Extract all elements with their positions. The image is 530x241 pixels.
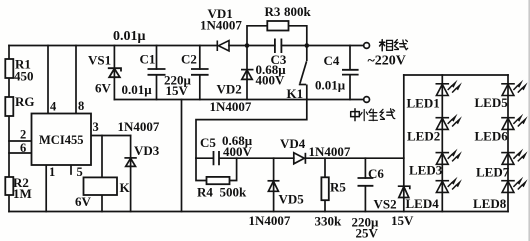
svg-text:C1: C1 [140,52,156,67]
wire pin8 drop [75,46,77,114]
LED3 [436,149,462,165]
svg-text:0.01μ: 0.01μ [122,82,153,97]
svg-text:6V: 6V [75,194,92,209]
resistor R5 [321,177,328,200]
svg-text:6V: 6V [95,81,112,96]
svg-text:1M: 1M [13,186,32,201]
svg-text:LED6: LED6 [475,128,509,143]
wire relay coil drop [101,136,103,212]
svg-text:2: 2 [20,128,26,142]
wire VS1 branch [113,46,115,100]
svg-text:330k: 330k [315,213,343,228]
wire LED box right column [507,75,509,212]
node label neutral line (Chinese 中性线) [351,109,395,121]
terminal phase line [364,43,370,49]
capacitor C6 plates [358,178,374,186]
svg-text:RG: RG [15,94,35,109]
terminal neutral line [364,97,370,103]
svg-text:MCI455: MCI455 [39,133,83,147]
resistor RG [5,97,13,116]
svg-text:VD3: VD3 [134,143,160,158]
svg-text:5: 5 [77,165,83,179]
wire lower feed from neutral [196,100,307,159]
diode VD3 [124,158,136,167]
diode VD5 [268,181,280,192]
switch K1 [299,47,307,100]
zener diode VS2 [398,186,410,197]
LED8 [501,177,527,193]
svg-text:VD2: VD2 [217,82,242,97]
node A junction dot [245,43,250,48]
capacitor C3 plates [275,39,282,54]
wire top rail [9,45,364,47]
svg-text:1: 1 [49,165,55,179]
svg-text:VS1: VS1 [88,53,111,68]
resistor R2 [5,177,13,195]
svg-text:400V: 400V [223,144,253,159]
wire LED left column [441,75,443,212]
wire VD3 branch [130,136,132,212]
svg-text:1N4007: 1N4007 [118,119,160,134]
svg-text:LED3: LED3 [409,163,443,178]
svg-text:LED4: LED4 [406,196,440,211]
wire neutral rail [114,99,363,101]
svg-text:VS2: VS2 [374,197,397,212]
wire R5 branch [324,158,326,211]
wire pin5 stub [70,165,72,174]
svg-text:C2: C2 [181,52,197,67]
diode VD4 [294,153,306,164]
svg-text:1N4007: 1N4007 [210,99,252,114]
svg-text:R5: R5 [330,180,346,195]
capacitor C2 plates [191,69,209,75]
LED4 [436,177,462,193]
wire VD2 branch [246,46,248,100]
svg-text:1N4007: 1N4007 [249,213,291,228]
wire C6 branch [364,158,366,211]
svg-text:~220V: ~220V [368,54,406,69]
wire C1 branch [156,46,158,100]
svg-text:0.01μ: 0.01μ [315,78,346,93]
wire C5 row [196,157,404,159]
wire R4 loop [196,158,237,180]
resistor R3 [267,21,288,31]
LED7 [501,149,527,165]
svg-text:R3: R3 [265,4,281,19]
svg-text:15V: 15V [166,83,189,98]
capacitor C4 plates [342,70,359,75]
svg-text:15V: 15V [391,213,414,228]
wire pin2 [9,140,32,142]
wire neutral to ground drop [181,100,183,212]
resistor R4 [207,177,230,184]
wire pin3 output [91,135,131,137]
svg-text:4: 4 [50,100,57,114]
svg-text:LED7: LED7 [476,165,510,180]
svg-text:LED8: LED8 [473,196,507,211]
wire left vertical bus [8,46,10,212]
svg-text:VD5: VD5 [279,192,305,207]
svg-text:K: K [120,180,131,195]
svg-text:500k: 500k [220,184,248,199]
zener diode VD2 [241,70,254,80]
resistor R1 [5,59,13,78]
svg-text:VD4: VD4 [280,136,306,151]
LED5 [501,80,527,96]
svg-text:450: 450 [14,69,34,84]
wire C4 branch [349,46,351,100]
wire bottom ground rail [9,211,508,213]
svg-text:LED5: LED5 [475,95,509,110]
zener diode VS1 [108,68,121,77]
op-amp U1 MCI455 timer box [32,114,92,166]
wire C2 branch [199,46,201,100]
right edge scan artifact [528,0,530,241]
svg-text:25V: 25V [356,226,379,241]
wire LED box top rail [404,74,508,76]
svg-text:LED2: LED2 [407,128,440,143]
wire LED box left / VS2 branch [403,75,405,212]
svg-text:C4: C4 [324,53,340,68]
svg-text:400V: 400V [256,73,286,88]
svg-text:3: 3 [93,120,99,134]
svg-text:LED1: LED1 [407,96,440,111]
wire pin6 [9,152,32,154]
svg-text:K1: K1 [287,86,304,101]
capacitor C1 plates [148,69,166,75]
relay K coil box [84,177,118,195]
svg-text:1N4007: 1N4007 [200,18,242,33]
svg-text:0.01μ: 0.01μ [113,29,146,44]
svg-text:C5: C5 [200,135,216,150]
LED2 [436,114,462,130]
capacitor C5 plates [214,151,220,165]
wire R3 loop [247,26,307,46]
svg-text:C6: C6 [368,166,384,181]
wire pin1 drop [45,165,47,212]
svg-text:8: 8 [78,99,84,113]
LED1 [436,80,462,96]
wire pin4 drop [47,46,49,114]
wire VD5 branch [273,158,275,211]
diode VD1 [217,41,229,52]
node label phase line (Chinese 相线) [380,40,408,51]
node B junction dot [305,43,310,48]
svg-text:1N4007: 1N4007 [309,144,351,159]
svg-text:800k: 800k [284,4,312,19]
svg-text:6: 6 [20,141,26,155]
LED6 [501,114,527,130]
svg-text:R4: R4 [197,184,213,199]
